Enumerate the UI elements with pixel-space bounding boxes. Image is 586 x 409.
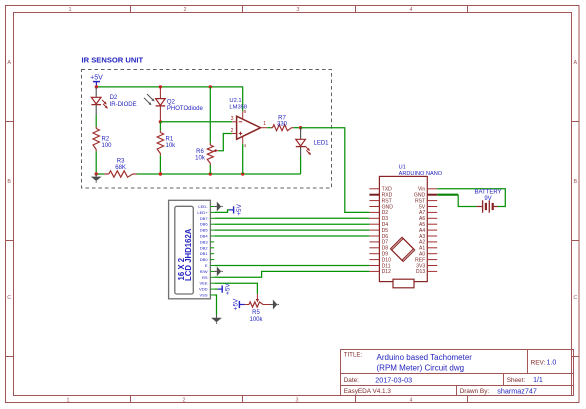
- R5 wiper arrow: [256, 294, 259, 302]
- lcd module body: [169, 200, 211, 298]
- photodiode Q2: [144, 87, 165, 122]
- +5V R5: [233, 298, 249, 310]
- svg-text:10k: 10k: [195, 156, 206, 162]
- svg-text:100: 100: [102, 143, 113, 149]
- lcd pin labels: [197, 204, 208, 298]
- ground lcd backlight: [214, 202, 223, 212]
- wire Vin to battery: [437, 189, 505, 207]
- svg-text:C: C: [7, 295, 11, 301]
- svg-text:2017-03-03: 2017-03-03: [375, 375, 412, 384]
- svg-text:9V: 9V: [484, 196, 491, 202]
- lcd title LCD JHD162A: [184, 228, 193, 281]
- ground lcd RW: [214, 266, 223, 276]
- svg-text:100k: 100k: [249, 317, 263, 323]
- label U2.1 LM358: [229, 98, 247, 111]
- svg-text:2: 2: [231, 128, 234, 134]
- svg-text:+5V: +5V: [224, 283, 231, 295]
- svg-text:R7: R7: [278, 115, 286, 121]
- node Q2 output: [159, 120, 162, 123]
- diode D2 IR-DIODE: [91, 87, 108, 115]
- svg-text:DB7: DB7: [200, 216, 209, 221]
- svg-text:4: 4: [410, 7, 413, 13]
- svg-text:VDD: VDD: [199, 287, 208, 292]
- wire R7 to LED1 node: [293, 127, 300, 129]
- label R5 100k: [249, 310, 263, 323]
- svg-text:LCD JHD162A: LCD JHD162A: [184, 228, 193, 281]
- svg-text:DB1: DB1: [200, 251, 209, 256]
- svg-text:LM358: LM358: [229, 104, 247, 110]
- label R2 100: [102, 136, 113, 149]
- svg-text:EasyEDA V4.1.3: EasyEDA V4.1.3: [344, 388, 392, 395]
- svg-text:ARDUINO NANO: ARDUINO NANO: [399, 171, 443, 177]
- ground sensor: [91, 174, 102, 183]
- resistor R3: [104, 171, 136, 177]
- led LED1: [296, 128, 311, 156]
- svg-text:D12: D12: [382, 269, 392, 275]
- wire opamp out to R7: [267, 127, 271, 129]
- svg-text:3: 3: [296, 397, 299, 403]
- wire RS to D12: [214, 271, 369, 277]
- frame right ticks: [572, 122, 580, 357]
- wire GND to battery: [458, 195, 476, 207]
- svg-text:D13: D13: [416, 269, 426, 275]
- +5V lcd vdd: [214, 283, 231, 295]
- svg-text:DB5: DB5: [200, 228, 209, 233]
- svg-text:REV:: REV:: [531, 359, 546, 366]
- +5V supply sensor: [90, 74, 103, 87]
- label BATTERY 9V: [474, 190, 501, 203]
- frame top ticks: [131, 6, 468, 13]
- arduino usb connector: [393, 279, 414, 288]
- svg-text:2: 2: [183, 397, 186, 403]
- label R6 10k: [195, 149, 206, 162]
- date row: [344, 375, 412, 384]
- wire DB4 to D6: [214, 235, 369, 237]
- resistor R7: [271, 125, 294, 131]
- svg-text:R3: R3: [117, 159, 125, 165]
- node top rail D2: [95, 85, 98, 88]
- svg-text:VEE: VEE: [199, 281, 207, 286]
- svg-text:E: E: [205, 263, 208, 268]
- svg-text:Arduino based Tachometer: Arduino based Tachometer: [377, 353, 473, 362]
- arduino right pin names: [414, 187, 426, 276]
- svg-text:PHOTOdiode: PHOTOdiode: [167, 106, 204, 112]
- label U1 ARDUINO NANO: [399, 164, 443, 177]
- label LED1: [314, 141, 330, 147]
- wire DB7 to D3: [214, 217, 369, 219]
- frame bottom ticks: [131, 396, 468, 403]
- arduino left pin stubs: [369, 189, 379, 272]
- node rail R1: [159, 172, 162, 175]
- svg-text:(RPM Meter) Circuit dwg: (RPM Meter) Circuit dwg: [377, 364, 465, 373]
- svg-text:R1: R1: [166, 136, 174, 142]
- node top rail R6: [209, 85, 212, 88]
- svg-text:DB0: DB0: [200, 257, 209, 262]
- wire GND to battery thick: [437, 194, 458, 196]
- node rail R6: [209, 172, 212, 175]
- label R7 330: [277, 115, 288, 127]
- svg-text:1: 1: [67, 397, 70, 403]
- battery BAT1 9V: [476, 200, 497, 212]
- svg-text:330: 330: [277, 121, 288, 127]
- svg-text:A: A: [573, 60, 577, 66]
- label D2: [110, 95, 137, 108]
- svg-text:1: 1: [69, 7, 72, 13]
- svg-text:R2: R2: [102, 136, 110, 142]
- wire DB5 to D5: [214, 229, 369, 231]
- svg-text:sharmaz747: sharmaz747: [497, 386, 537, 395]
- wire sensor ground rail: [96, 173, 300, 175]
- wire E to D11: [214, 265, 369, 267]
- IR SENSOR UNIT label: [82, 56, 144, 65]
- svg-text:Drawn By:: Drawn By:: [460, 388, 490, 395]
- svg-text:C: C: [573, 295, 577, 301]
- svg-text:2: 2: [184, 7, 187, 13]
- label R3 68K: [115, 159, 126, 171]
- svg-text:LED1: LED1: [314, 141, 330, 147]
- svg-text:1.0: 1.0: [547, 359, 557, 366]
- svg-text:+5V: +5V: [233, 298, 240, 310]
- wire DB6 to D4: [214, 223, 369, 225]
- lcd pin stubs: [210, 207, 214, 296]
- frame left ticks: [6, 122, 14, 357]
- svg-text:U2.1: U2.1: [229, 98, 241, 104]
- svg-text:B: B: [573, 179, 577, 185]
- wire Q2 to R1: [159, 122, 161, 131]
- wire VSS down: [214, 295, 216, 315]
- svg-text:D2: D2: [110, 95, 118, 101]
- frame row letters right: [573, 60, 577, 301]
- svg-text:4: 4: [410, 397, 413, 403]
- svg-text:LED-: LED-: [198, 204, 208, 209]
- label Q2: [167, 99, 204, 112]
- svg-text:3: 3: [297, 7, 300, 13]
- title block: [341, 350, 574, 396]
- potentiometer R6: [207, 143, 213, 165]
- IR sensor unit dashed box: [82, 70, 332, 189]
- svg-text:DB3: DB3: [200, 239, 209, 244]
- easyeda row: [344, 388, 392, 395]
- wire R1 to rail: [159, 155, 161, 174]
- svg-text:DB6: DB6: [200, 222, 209, 227]
- wire LED1 to rail: [300, 156, 302, 174]
- svg-text:A: A: [7, 60, 11, 66]
- wire sensor out to D2: [301, 128, 370, 213]
- node LED1: [299, 126, 302, 129]
- arduino diamond mark: [391, 237, 415, 261]
- svg-text:U1: U1: [399, 164, 406, 170]
- svg-text:IR SENSOR UNIT: IR SENSOR UNIT: [82, 56, 144, 65]
- svg-text:3: 3: [231, 116, 234, 122]
- ic U1 arduino nano body: [379, 176, 427, 281]
- wire Q2 to opamp pin3: [160, 121, 232, 123]
- svg-text:+5V: +5V: [90, 74, 103, 81]
- svg-text:R6: R6: [196, 149, 204, 155]
- sheet cell: [507, 377, 543, 384]
- op-amp U2.1: [232, 111, 267, 143]
- lcd title 16 X 2: [177, 257, 186, 280]
- wire +5V top rail: [96, 87, 242, 111]
- resistor R2: [93, 127, 99, 152]
- svg-text:LED+: LED+: [197, 210, 208, 215]
- potentiometer R5: [249, 302, 263, 307]
- arduino left pin names: [382, 187, 394, 276]
- svg-text:1/1: 1/1: [533, 377, 543, 384]
- drawn by cell: [460, 386, 537, 395]
- svg-text:1: 1: [263, 121, 266, 127]
- svg-text:+5V: +5V: [236, 203, 243, 215]
- R6 wiper arrow: [213, 149, 218, 152]
- wire R6 bottom: [209, 165, 211, 174]
- label R1 10k: [166, 136, 177, 149]
- node top rail Q2: [159, 85, 162, 88]
- svg-text:Sheet:: Sheet:: [507, 377, 526, 384]
- svg-text:10k: 10k: [166, 143, 177, 149]
- frame column numbers bottom: [67, 397, 413, 403]
- wire R6 top: [209, 87, 211, 143]
- opamp pin numbers: [231, 109, 267, 148]
- wire VEE to R5 wiper: [214, 283, 257, 294]
- arduino right pin stubs: [427, 189, 437, 272]
- wire R2 to rail: [95, 151, 97, 174]
- svg-text:DB4: DB4: [200, 234, 209, 239]
- resistor R1: [157, 131, 163, 156]
- svg-text:Q2: Q2: [167, 99, 176, 105]
- node rail R2: [95, 172, 98, 175]
- ground R5: [263, 300, 279, 310]
- wire opamp V- to rail: [242, 144, 244, 174]
- svg-text:TITLE:: TITLE:: [344, 351, 363, 358]
- ground lcd vss: [211, 315, 222, 324]
- svg-text:VSS: VSS: [199, 293, 207, 298]
- frame row letters left: [7, 60, 11, 301]
- node rail opamp: [241, 172, 244, 175]
- svg-text:B: B: [7, 179, 11, 185]
- svg-text:R/W: R/W: [200, 269, 208, 274]
- svg-text:DB2: DB2: [200, 245, 209, 250]
- svg-text:4: 4: [244, 143, 247, 148]
- svg-text:RS: RS: [202, 275, 208, 280]
- svg-text:BATTERY: BATTERY: [474, 190, 501, 196]
- svg-text:Date:: Date:: [344, 377, 359, 384]
- title text: [344, 351, 473, 372]
- svg-text:IR-DIODE: IR-DIODE: [110, 102, 137, 108]
- +5V lcd backlight: [214, 203, 243, 215]
- rev cell: [531, 359, 557, 366]
- wire opamp pin2 to R6 wiper: [218, 134, 232, 151]
- svg-text:68K: 68K: [115, 165, 126, 171]
- wire D2 to R2: [95, 115, 97, 127]
- svg-text:R5: R5: [252, 310, 260, 316]
- frame column numbers top: [69, 7, 413, 13]
